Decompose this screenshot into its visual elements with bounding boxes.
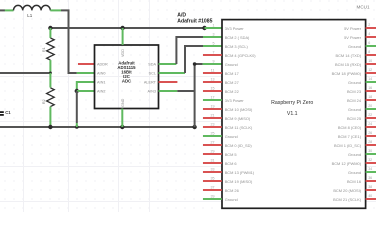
svg-text:6: 6 [368,41,370,45]
svg-text:BCM 25: BCM 25 [347,116,361,121]
svg-text:1: 1 [213,23,215,27]
svg-text:10: 10 [368,59,372,63]
svg-text:BCM 18 (PWM0): BCM 18 (PWM0) [332,71,362,76]
pin 39 Ground [203,198,222,200]
svg-text:BCM 23: BCM 23 [347,89,361,94]
svg-text:19: 19 [211,104,215,108]
svg-text:BCM 14 (TXD): BCM 14 (TXD) [335,53,361,58]
svg-text:BCM 16: BCM 16 [347,179,361,184]
svg-text:ADC: ADC [122,79,131,84]
wire: L1 output to corner [61,10,77,73]
wire: ground rail [0,126,195,128]
svg-text:34: 34 [368,167,372,171]
svg-text:18: 18 [368,95,372,99]
wire: SCL to pi pin5 [159,72,186,74]
svg-text:BCM 0 (ID_SD): BCM 0 (ID_SD) [225,143,253,148]
svg-text:22: 22 [368,113,372,117]
node: VDD branch junction [120,26,124,30]
svg-text:20: 20 [368,104,372,108]
svg-text:27: 27 [211,140,215,144]
pin 33 BCM 13 (PWM1) [203,171,222,173]
pin 17 3V3 Power [203,99,222,101]
svg-text:Ground: Ground [348,107,361,112]
svg-text:BCM 20 (MOSI): BCM 20 (MOSI) [333,188,361,193]
svg-text:15: 15 [211,86,215,90]
pin 11 BCM 17 [203,72,222,74]
svg-text:17: 17 [211,95,215,99]
pin 35 BCM 19 (MISO) [203,180,222,182]
pin 16 BCM 23 [366,90,376,92]
svg-text:BCM 15 (RXD): BCM 15 (RXD) [335,62,362,67]
svg-text:Raspberry Pi Zero: Raspberry Pi Zero [271,100,313,106]
pin 30 Ground [366,153,376,155]
svg-text:31: 31 [211,158,215,162]
pin 20 Ground [366,108,376,110]
svg-text:AIN1: AIN1 [97,80,105,84]
node: rail end / pi ground drop [192,125,196,129]
wire: AIN1/2 down to rail [76,91,78,123]
svg-text:26: 26 [368,131,372,135]
svg-text:3: 3 [213,32,215,36]
pin 28 BCM 1 (ID_SC) [366,144,376,146]
svg-text:C1: C1 [5,110,11,115]
pin 40 BCM 21 (SCLK) [366,198,376,200]
resistor R2 [49,73,51,88]
svg-text:9: 9 [213,59,215,63]
svg-text:SCL: SCL [149,71,156,75]
svg-text:3V3 Power: 3V3 Power [225,26,245,31]
wire: AIN2 green [77,90,95,92]
node: AIN1/AIN2 junction [75,89,79,93]
svg-text:R2: R2 [42,99,46,104]
svg-text:BCM 12 (PWM0): BCM 12 (PWM0) [332,161,362,166]
svg-text:38: 38 [368,185,372,189]
svg-text:Adafruit #1085: Adafruit #1085 [177,18,212,24]
svg-text:BCM 3 (SCL): BCM 3 (SCL) [225,44,249,49]
pin 36 BCM 16 [366,180,376,182]
pin 32 BCM 12 (PWM0) [366,162,376,164]
svg-text:R1: R1 [42,47,46,52]
node: Pi pin1 junction [202,26,206,30]
wire: 3V3 rail y=28 [50,27,204,29]
svg-text:ALERT: ALERT [144,80,157,84]
svg-text:BCM 9 (MISO): BCM 9 (MISO) [225,116,251,121]
svg-text:V1.1: V1.1 [287,111,298,117]
pin 22 BCM 25 [366,117,376,119]
pin 18 BCM 24 [366,99,376,101]
svg-text:5V Power: 5V Power [344,35,362,40]
pin GND stub [121,109,123,128]
pin 21 BCM 9 (MISO) [203,117,222,119]
svg-text:VDD: VDD [121,49,125,57]
pin VDD stub [122,28,124,45]
svg-text:Ground: Ground [348,80,361,85]
capacitor C1 [0,111,4,113]
svg-text:BCM 24: BCM 24 [347,98,362,103]
svg-text:12: 12 [368,68,372,72]
pin 4 5V Power [366,36,376,38]
svg-text:BCM 22: BCM 22 [225,89,239,94]
wire: top-left input wire (green) [0,9,5,11]
pin 2 5V Power [366,27,376,29]
svg-text:BCM 19 (MISO): BCM 19 (MISO) [225,179,253,184]
svg-text:AIN0: AIN0 [97,71,105,75]
svg-text:4: 4 [368,32,370,36]
svg-text:Ground: Ground [225,62,238,67]
svg-text:Ground: Ground [348,170,361,175]
svg-text:BCM 7 (CE1): BCM 7 (CE1) [338,134,362,139]
svg-text:13: 13 [211,77,215,81]
pin 38 BCM 20 (MOSI) [366,189,376,191]
pin 10 BCM 15 (RXD) [366,63,376,65]
svg-text:Ground: Ground [225,134,238,139]
resistor R1 [49,28,51,38]
wire: AIN3 to ground drop [159,90,178,92]
svg-text:14: 14 [368,77,372,81]
pin 15 BCM 22 [203,90,222,92]
svg-text:BCM 2 ( SDA): BCM 2 ( SDA) [225,35,250,40]
svg-text:2: 2 [368,23,370,27]
svg-text:BCM 26: BCM 26 [225,188,239,193]
svg-text:BCM 27: BCM 27 [225,80,239,85]
svg-text:8: 8 [368,50,370,54]
wire: green into Pi pin 1 [205,27,222,29]
svg-text:BCM 13 (PWM1): BCM 13 (PWM1) [225,170,255,175]
wire: green into AIN0 [77,72,95,74]
pin 7 BCM 4 (GPCLK0) [203,54,222,56]
pin 24 BCM 8 (CE0) [366,126,376,128]
svg-text:GND: GND [121,98,125,107]
svg-text:25: 25 [211,131,215,135]
pin 23 BCM 11 (SCLK) [203,126,222,128]
svg-text:37: 37 [211,185,215,189]
svg-text:Ground: Ground [348,152,361,157]
svg-text:5: 5 [213,41,215,45]
svg-text:BCM 17: BCM 17 [225,71,239,76]
svg-text:AIN3: AIN3 [148,89,156,93]
svg-text:BCM 1 (ID_SC): BCM 1 (ID_SC) [334,143,362,148]
wire: L1 output green segment [50,9,61,11]
svg-text:SDA: SDA [148,62,156,66]
MCU U1 Raspberry Pi Zero body [222,20,366,209]
node: R1 top junction [48,26,52,30]
pin 26 BCM 7 (CE1) [366,135,376,137]
svg-text:AIN2: AIN2 [97,89,105,93]
svg-text:BCM 6: BCM 6 [225,161,237,166]
node: chip GND on rail [120,125,124,129]
svg-text:BCM 11 (SCLK): BCM 11 (SCLK) [225,125,253,130]
node: divider junction [49,72,52,75]
svg-text:30: 30 [368,149,372,153]
pin 14 Ground [366,81,376,83]
svg-text:Ground: Ground [348,44,361,49]
wire: pi pin9 ground drop [195,64,203,127]
IC ADC1 Adafruit ADS1115 body [95,45,159,109]
pin 13 BCM 27 [203,81,222,83]
svg-text:36: 36 [368,176,372,180]
svg-text:33: 33 [211,167,215,171]
inductor L1 [14,5,51,10]
pin 29 BCM 5 [203,153,222,155]
pin 25 Ground [203,135,222,137]
pin ADDR (unconnected, red) [78,63,95,65]
pin 6 Ground [366,45,376,47]
svg-text:ADDR: ADDR [97,62,108,66]
wire: AIN1 green [77,82,95,91]
pin 31 BCM 6 [203,162,222,164]
pin 27 BCM 0 (ID_SD) [203,144,222,146]
svg-text:BCM 21 (SCLK): BCM 21 (SCLK) [333,197,362,202]
pin 19 BCM 10 (MOSI) [203,108,222,110]
svg-text:11: 11 [211,68,215,72]
svg-text:16: 16 [368,86,372,90]
pin 12 BCM 18 (PWM0) [366,72,376,74]
svg-text:BCM 8 (CE0): BCM 8 (CE0) [338,125,362,130]
svg-text:L1: L1 [27,13,33,18]
svg-text:Ground: Ground [225,197,238,202]
svg-text:BCM 10 (MOSI): BCM 10 (MOSI) [225,107,253,112]
pin 8 BCM 14 (TXD) [366,54,376,56]
svg-text:29: 29 [211,149,215,153]
svg-text:BCM 4 (GPCLK0): BCM 4 (GPCLK0) [225,53,257,58]
pin 37 BCM 26 [203,189,222,191]
svg-text:28: 28 [368,140,372,144]
pin ALERT (unconnected, red) [159,81,178,83]
svg-text:24: 24 [368,122,372,126]
svg-text:MCU1: MCU1 [357,4,370,9]
svg-text:35: 35 [211,176,215,180]
svg-text:39: 39 [211,194,215,198]
svg-text:21: 21 [211,113,215,117]
node: AIN1/2 drop on rail [75,125,79,129]
wire: SDA to pi pin3 [159,63,177,65]
chip center label [117,61,136,84]
svg-text:7: 7 [213,50,215,54]
svg-text:5V Power: 5V Power [344,26,362,31]
svg-text:3V3 Power: 3V3 Power [225,98,245,103]
svg-text:23: 23 [211,122,215,126]
svg-text:32: 32 [368,158,372,162]
wire: divider mid wire to left edge [0,72,50,74]
svg-text:40: 40 [368,194,372,198]
pin 34 Ground [366,171,376,173]
node: R2 bottom on rail [48,125,52,129]
svg-text:BCM 5: BCM 5 [225,152,237,157]
